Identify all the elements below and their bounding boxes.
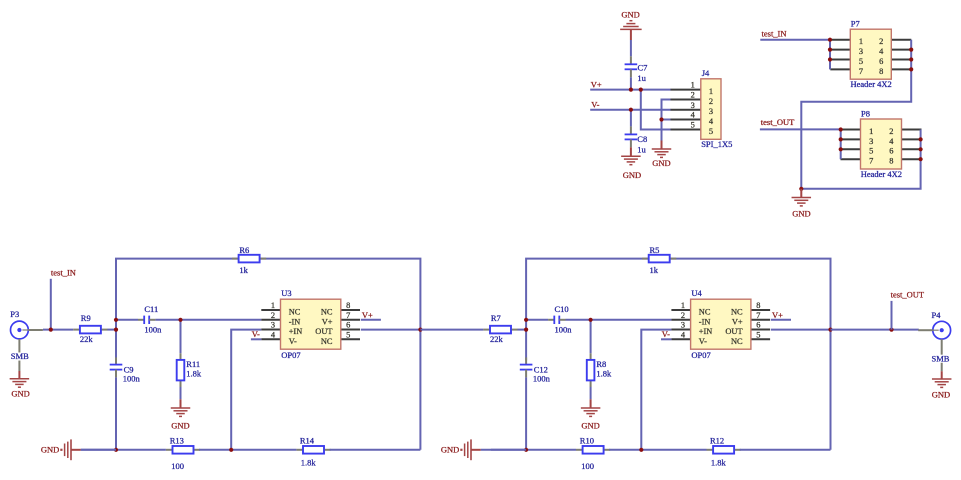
svg-text:+IN: +IN [699, 327, 713, 336]
svg-text:V+: V+ [772, 310, 783, 320]
svg-text:test_OUT: test_OUT [761, 117, 795, 127]
svg-text:8: 8 [756, 301, 760, 310]
svg-text:1: 1 [681, 301, 685, 310]
svg-text:U3: U3 [281, 288, 291, 298]
svg-text:1: 1 [859, 37, 863, 46]
svg-text:1.8k: 1.8k [711, 458, 727, 468]
svg-text:6: 6 [346, 321, 350, 330]
svg-text:6: 6 [756, 321, 760, 330]
svg-text:GND: GND [932, 389, 950, 399]
svg-text:7: 7 [859, 67, 863, 76]
svg-text:R7: R7 [491, 313, 501, 323]
svg-text:R6: R6 [239, 245, 249, 255]
svg-text:C8: C8 [637, 134, 647, 144]
svg-text:C11: C11 [144, 304, 158, 314]
svg-text:OP07: OP07 [691, 350, 710, 360]
svg-text:4: 4 [271, 330, 276, 339]
svg-text:NC: NC [321, 308, 333, 317]
svg-text:NC: NC [731, 308, 743, 317]
svg-text:2: 2 [691, 91, 695, 100]
svg-text:GND: GND [792, 208, 810, 218]
svg-text:100n: 100n [123, 373, 141, 383]
svg-text:1: 1 [869, 127, 873, 136]
svg-text:R12: R12 [710, 435, 724, 445]
svg-text:5: 5 [691, 121, 695, 130]
svg-text:2: 2 [681, 311, 685, 320]
svg-text:7: 7 [869, 157, 873, 166]
svg-text:100: 100 [171, 461, 184, 471]
svg-text:R5: R5 [650, 245, 660, 255]
svg-text:7: 7 [346, 311, 350, 320]
svg-text:V+: V+ [322, 317, 333, 326]
svg-text:GND: GND [623, 170, 641, 180]
svg-text:R13: R13 [170, 435, 184, 445]
svg-text:6: 6 [879, 57, 883, 66]
svg-text:1: 1 [271, 301, 275, 310]
svg-text:C7: C7 [638, 63, 648, 73]
svg-text:8: 8 [346, 301, 350, 310]
svg-text:SMB: SMB [11, 351, 29, 361]
svg-text:5: 5 [709, 127, 713, 136]
svg-text:22k: 22k [490, 334, 504, 344]
svg-text:SPI_1X5: SPI_1X5 [701, 139, 732, 149]
svg-text:100n: 100n [555, 325, 573, 335]
svg-text:3: 3 [681, 321, 685, 330]
svg-text:100: 100 [581, 461, 594, 471]
svg-text:4: 4 [691, 111, 696, 120]
svg-text:5: 5 [346, 330, 350, 339]
svg-text:GND: GND [621, 10, 639, 20]
svg-text:R9: R9 [81, 313, 91, 323]
svg-text:GND: GND [41, 445, 59, 455]
svg-text:8: 8 [879, 67, 883, 76]
svg-text:C10: C10 [555, 304, 569, 314]
svg-text:NC: NC [699, 308, 711, 317]
svg-text:P7: P7 [851, 19, 860, 29]
svg-text:OP07: OP07 [281, 350, 300, 360]
svg-text:1u: 1u [637, 73, 646, 83]
svg-text:V-: V- [662, 329, 670, 339]
svg-text:OUT: OUT [725, 327, 742, 336]
svg-text:1k: 1k [650, 265, 659, 275]
svg-text:GND: GND [652, 158, 670, 168]
svg-text:100n: 100n [533, 373, 551, 383]
svg-text:3: 3 [869, 137, 873, 146]
svg-text:R10: R10 [580, 435, 594, 445]
svg-text:OUT: OUT [315, 327, 332, 336]
svg-text:GND: GND [171, 420, 189, 430]
svg-text:GND: GND [581, 420, 599, 430]
svg-text:1.8k: 1.8k [596, 369, 612, 379]
svg-text:2: 2 [271, 311, 275, 320]
svg-text:2: 2 [889, 127, 893, 136]
svg-text:2: 2 [879, 37, 883, 46]
svg-text:+IN: +IN [289, 327, 303, 336]
svg-text:3: 3 [691, 101, 695, 110]
svg-text:V-: V- [591, 100, 599, 110]
svg-text:V-: V- [699, 337, 707, 346]
svg-text:test_OUT: test_OUT [891, 290, 925, 300]
svg-text:J4: J4 [702, 68, 710, 78]
svg-text:3: 3 [271, 321, 275, 330]
svg-text:test_IN: test_IN [51, 268, 76, 278]
svg-text:R14: R14 [300, 435, 315, 445]
svg-text:5: 5 [859, 57, 863, 66]
svg-text:100n: 100n [144, 325, 162, 335]
svg-text:P3: P3 [10, 309, 19, 319]
svg-text:1u: 1u [637, 145, 646, 155]
svg-text:1: 1 [691, 81, 695, 90]
svg-text:V+: V+ [732, 317, 743, 326]
svg-text:NC: NC [321, 337, 333, 346]
svg-text:7: 7 [756, 311, 760, 320]
svg-text:3: 3 [709, 107, 713, 116]
svg-text:3: 3 [859, 47, 863, 56]
svg-text:GND: GND [11, 388, 29, 398]
svg-text:V-: V- [289, 337, 297, 346]
svg-text:5: 5 [756, 330, 760, 339]
svg-text:4: 4 [681, 330, 686, 339]
svg-text:Header 4X2: Header 4X2 [861, 169, 902, 179]
svg-text:1k: 1k [239, 265, 248, 275]
svg-text:V+: V+ [362, 310, 373, 320]
svg-text:22k: 22k [80, 334, 94, 344]
svg-text:6: 6 [889, 147, 893, 156]
svg-text:U4: U4 [691, 288, 702, 298]
svg-text:Header 4X2: Header 4X2 [851, 79, 892, 89]
svg-text:-IN: -IN [289, 317, 301, 326]
svg-text:2: 2 [709, 97, 713, 106]
svg-text:1.8k: 1.8k [186, 369, 202, 379]
svg-text:V-: V- [252, 329, 260, 339]
svg-text:1: 1 [709, 87, 713, 96]
svg-text:GND: GND [441, 445, 459, 455]
svg-text:test_IN: test_IN [762, 29, 787, 39]
svg-text:-IN: -IN [699, 317, 711, 326]
svg-text:P8: P8 [861, 108, 870, 118]
svg-text:V+: V+ [591, 79, 602, 89]
svg-text:P4: P4 [932, 310, 942, 320]
svg-text:5: 5 [869, 147, 873, 156]
svg-text:8: 8 [889, 157, 893, 166]
svg-text:1.8k: 1.8k [301, 458, 317, 468]
svg-text:NC: NC [731, 337, 743, 346]
svg-text:NC: NC [289, 308, 301, 317]
svg-text:SMB: SMB [932, 353, 950, 363]
